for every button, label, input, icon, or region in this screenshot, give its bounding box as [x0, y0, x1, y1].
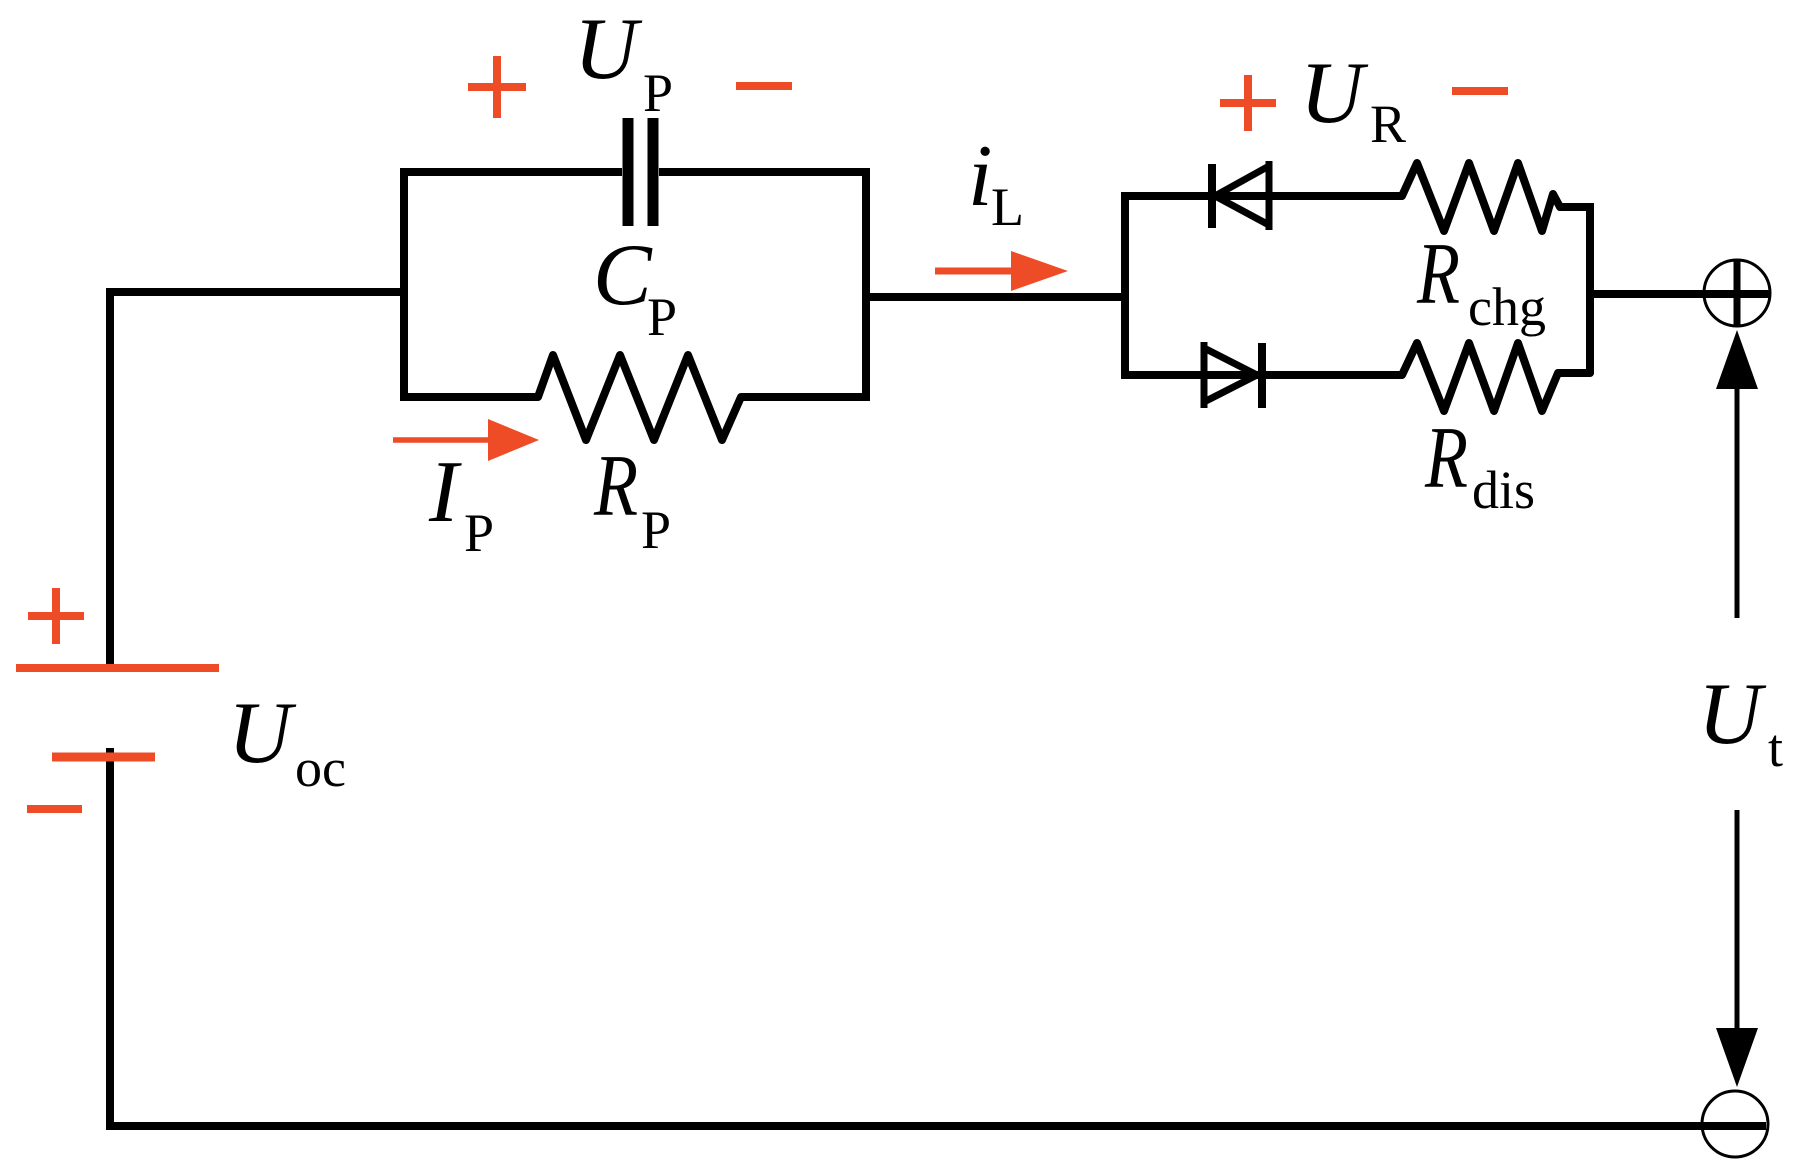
- battery minus sign (red): [27, 805, 82, 813]
- svg-text:P: P: [643, 63, 673, 123]
- resistor R_p zigzag: [538, 355, 741, 440]
- battery plus sign (red): [28, 588, 84, 644]
- minus sign of U_R (red): [1452, 87, 1508, 95]
- current arrow I_p (red): [393, 419, 539, 461]
- plus sign of U_p (red): [468, 56, 526, 118]
- diode D2 (discharge, pointing right): triangle: [1201, 342, 1208, 408]
- svg-text:I: I: [428, 444, 462, 541]
- current arrow i_L (red): [935, 251, 1068, 291]
- diode D1 (charge, pointing left): cathode bar: [1208, 164, 1216, 228]
- svg-text:U: U: [228, 685, 297, 782]
- U_t lower vertical line: [1735, 810, 1740, 1032]
- U_t upper vertical line: [1735, 386, 1740, 618]
- diode D2 cathode bar: [1258, 343, 1266, 408]
- svg-text:i: i: [968, 128, 992, 225]
- diode D1 triangle: [1266, 161, 1273, 230]
- svg-text:U: U: [1300, 45, 1369, 142]
- vertical bar of plus terminal: [1734, 261, 1741, 325]
- wire: RC box to diode network: [866, 293, 1125, 301]
- svg-text:oc: oc: [295, 738, 346, 798]
- battery U_oc negative plate (short, red): [52, 753, 155, 762]
- svg-text:C: C: [593, 227, 653, 324]
- svg-text:R: R: [1370, 94, 1406, 154]
- svg-text:R: R: [1416, 226, 1460, 323]
- svg-text:P: P: [464, 503, 494, 563]
- RC box top-right wire: [659, 172, 866, 397]
- svg-text:U: U: [1698, 666, 1767, 763]
- RC box top-left wire: [404, 172, 622, 397]
- svg-text:t: t: [1768, 718, 1783, 778]
- svg-text:R: R: [1424, 410, 1468, 507]
- svg-text:U: U: [574, 1, 643, 98]
- positive terminal circle: [1704, 260, 1770, 326]
- wire: minus bar inside negative terminal: [1700, 1122, 1766, 1130]
- negative terminal circle: [1702, 1091, 1768, 1157]
- svg-text:P: P: [641, 500, 671, 560]
- diode network top branch wire: [1121, 192, 1402, 200]
- resistor R_dis zigzag: [1402, 343, 1590, 411]
- wire: right edge to positive terminal (horizontal bar of plus): [1586, 290, 1769, 298]
- svg-text:R: R: [593, 437, 638, 534]
- resistor R_chg zigzag: [1402, 163, 1590, 231]
- svg-text:chg: chg: [1468, 277, 1546, 337]
- diode network bottom branch wire: [1121, 371, 1402, 379]
- diode network right edge: [1586, 203, 1594, 374]
- plus sign of U_R (red): [1220, 75, 1276, 131]
- capacitor C_p plates: [623, 118, 634, 226]
- wire: left vertical lower + bottom horizontal to negative terminal: [110, 748, 1766, 1126]
- battery U_oc positive plate (long, red): [16, 664, 219, 672]
- diode network left edge: [1121, 192, 1129, 379]
- svg-text:L: L: [991, 177, 1024, 237]
- wire: top horizontal from battery node to RC box left edge: [110, 292, 404, 668]
- U_t down arrowhead: [1716, 1028, 1758, 1087]
- svg-text:dis: dis: [1472, 460, 1535, 520]
- U_t up arrowhead: [1716, 330, 1758, 389]
- svg-text:P: P: [647, 287, 677, 347]
- minus sign of U_p (red): [736, 82, 792, 90]
